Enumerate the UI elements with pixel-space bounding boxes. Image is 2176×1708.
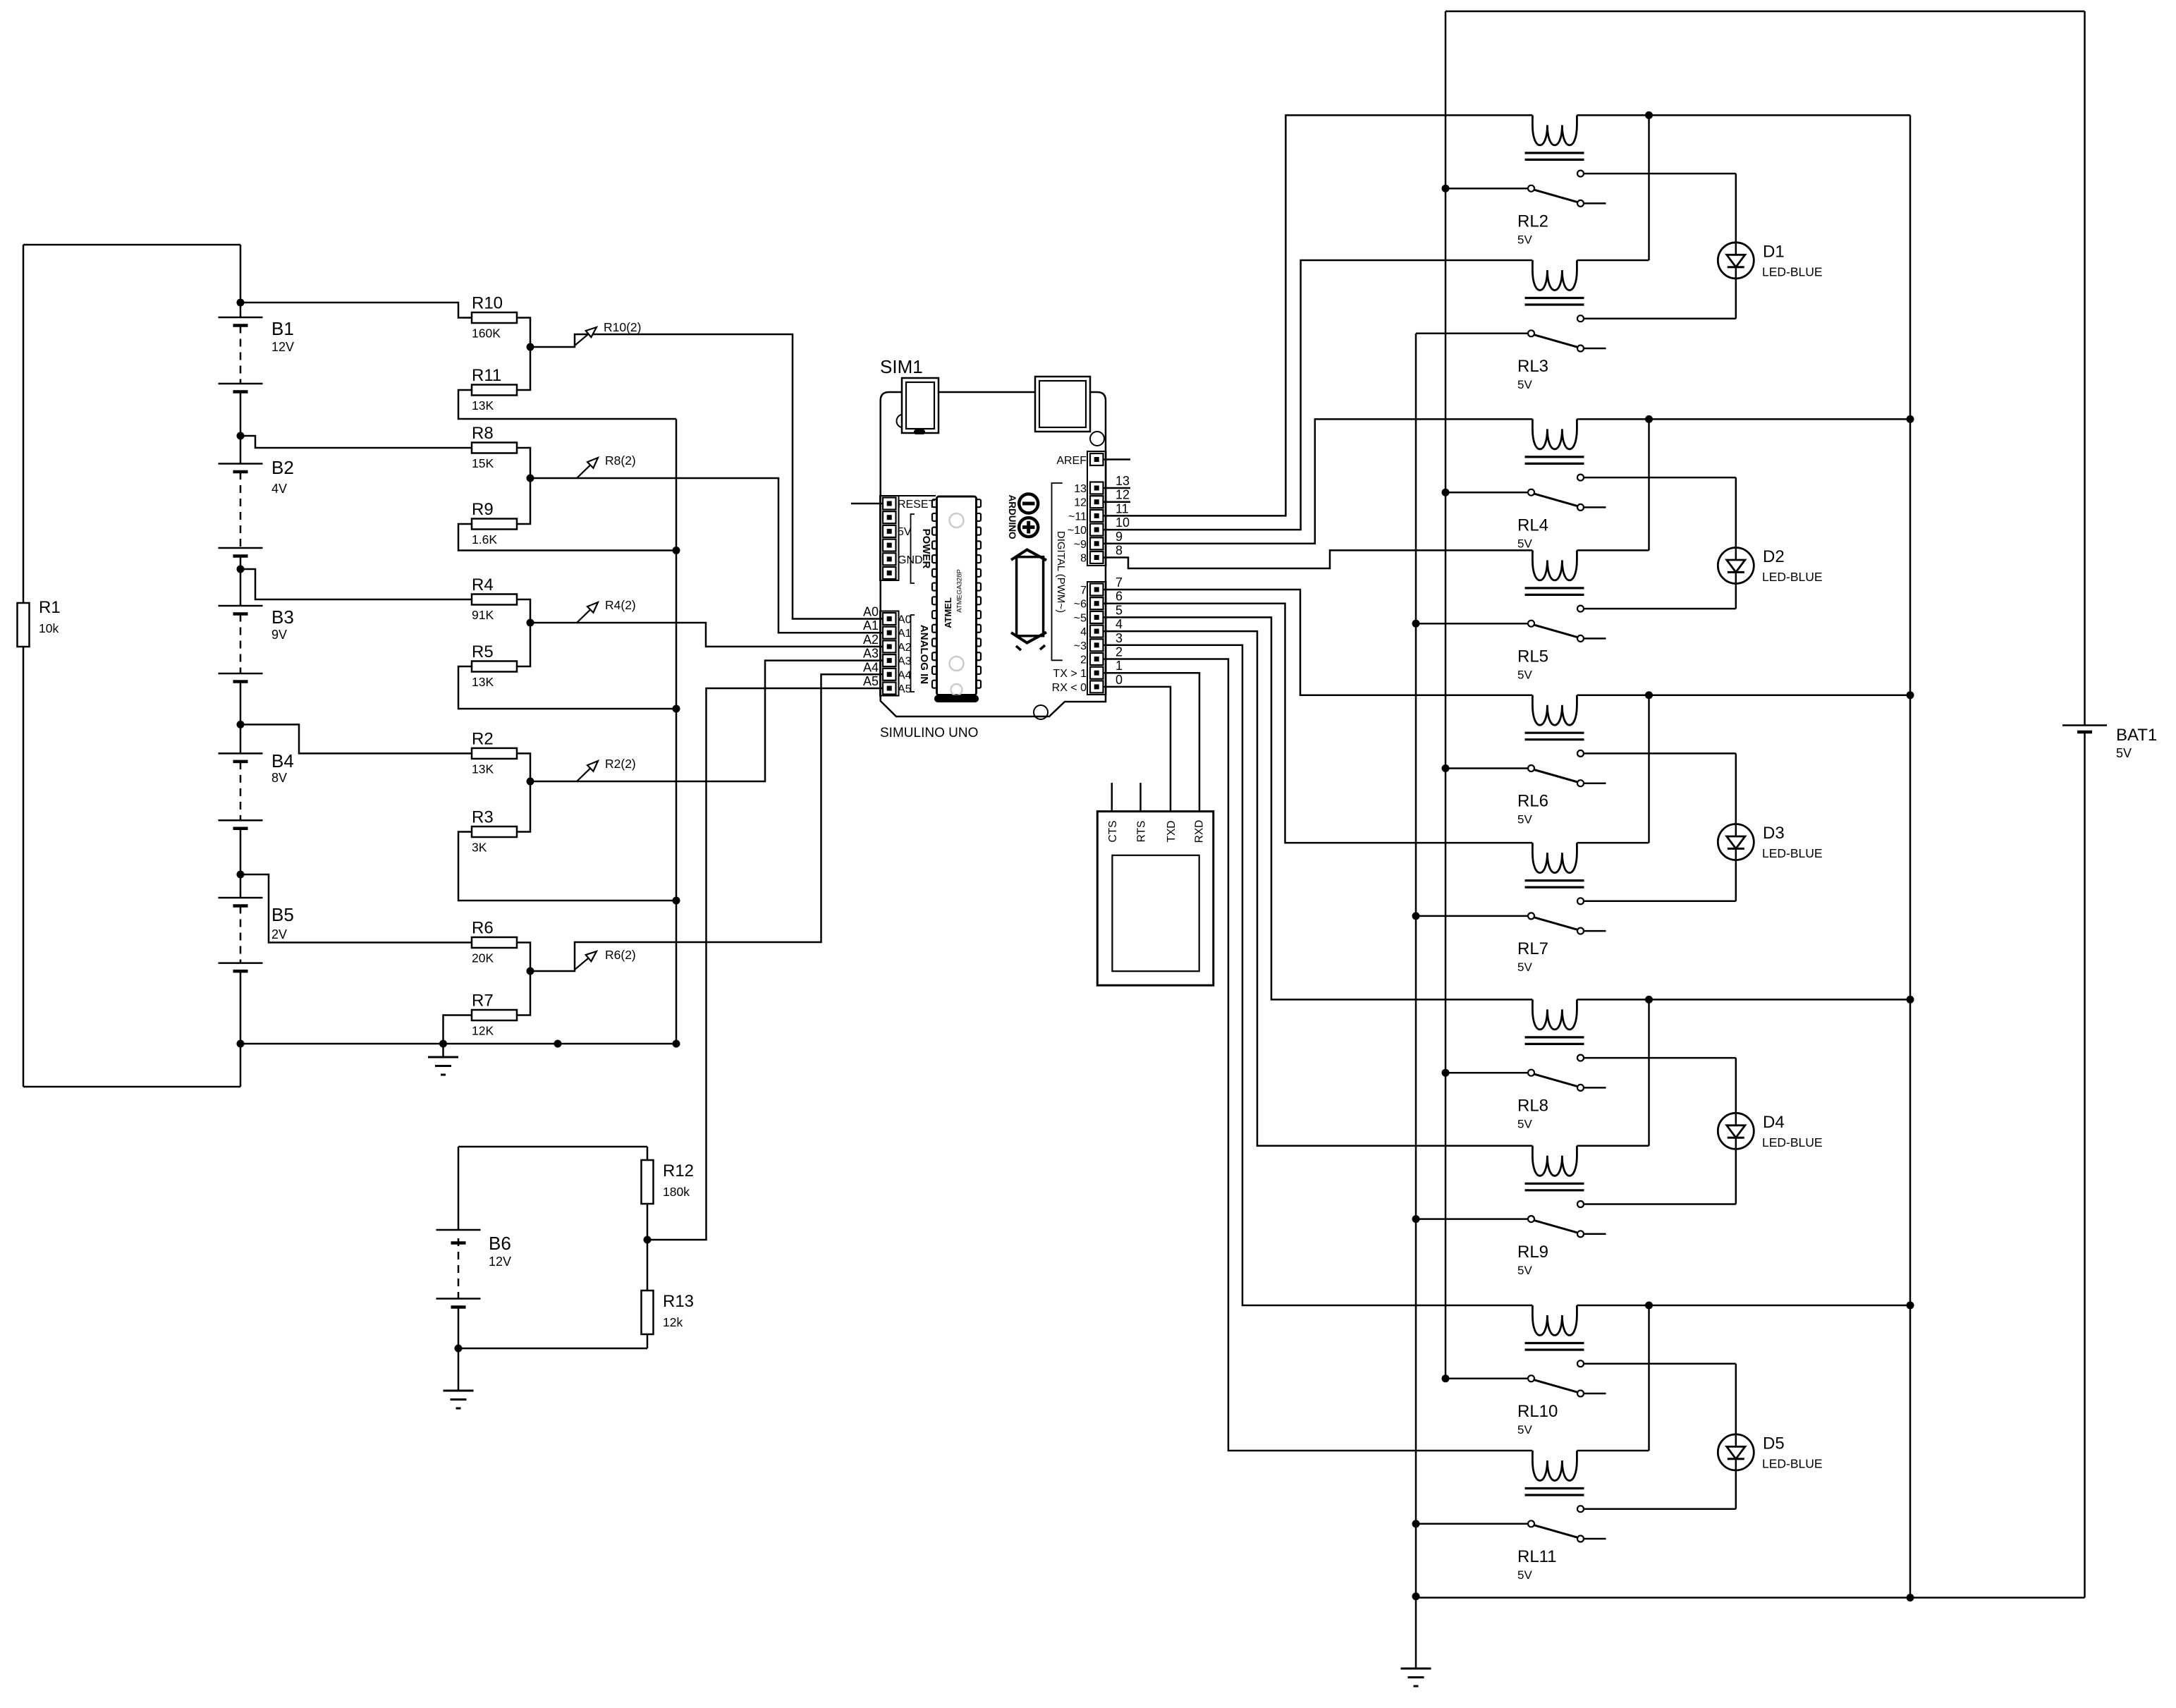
svg-text:D2: D2 (1763, 547, 1785, 566)
svg-text:R6: R6 (472, 919, 494, 938)
svg-text:11: 11 (1115, 501, 1129, 516)
svg-text:RXD: RXD (1194, 820, 1206, 843)
svg-text:A0: A0 (863, 605, 879, 619)
svg-text:RL2: RL2 (1517, 212, 1548, 231)
svg-text:DIGITAL (PWM~): DIGITAL (PWM~) (1055, 531, 1067, 613)
svg-text:A2: A2 (898, 642, 912, 654)
svg-text:BAT1: BAT1 (2116, 726, 2157, 745)
svg-text:R8: R8 (472, 424, 494, 443)
svg-text:R7: R7 (472, 992, 494, 1011)
svg-text:R5: R5 (472, 642, 494, 661)
svg-text:5V: 5V (2116, 746, 2132, 760)
svg-text:R12: R12 (663, 1161, 694, 1181)
svg-text:A1: A1 (863, 618, 879, 633)
svg-text:R10(2): R10(2) (604, 320, 642, 334)
svg-text:2V: 2V (271, 927, 287, 941)
svg-text:~5: ~5 (1074, 612, 1087, 624)
svg-text:A5: A5 (863, 674, 879, 688)
svg-text:8: 8 (1080, 553, 1087, 565)
svg-text:5V: 5V (1517, 1117, 1532, 1130)
svg-text:13K: 13K (472, 398, 494, 413)
svg-text:R8(2): R8(2) (605, 453, 636, 468)
svg-text:5V: 5V (1517, 378, 1532, 391)
svg-text:5V: 5V (1517, 537, 1532, 550)
svg-text:A3: A3 (863, 647, 879, 661)
svg-text:R4: R4 (472, 575, 494, 594)
svg-text:LED-BLUE: LED-BLUE (1762, 1456, 1823, 1470)
svg-text:RL4: RL4 (1517, 516, 1548, 535)
svg-text:LED-BLUE: LED-BLUE (1762, 1135, 1823, 1149)
svg-text:5V: 5V (1517, 960, 1532, 974)
svg-text:AREF: AREF (1056, 455, 1087, 467)
svg-text:7: 7 (1115, 575, 1123, 590)
svg-text:10k: 10k (39, 621, 59, 635)
svg-text:10: 10 (1115, 516, 1130, 530)
svg-text:A4: A4 (898, 669, 912, 681)
svg-text:RL10: RL10 (1517, 1402, 1558, 1421)
svg-text:~3: ~3 (1074, 640, 1087, 652)
svg-text:5V: 5V (898, 526, 912, 538)
svg-text:5V: 5V (1517, 1423, 1532, 1436)
svg-text:A2: A2 (863, 633, 879, 647)
svg-text:12: 12 (1115, 488, 1130, 502)
svg-text:~10: ~10 (1068, 525, 1087, 537)
svg-text:12k: 12k (663, 1315, 683, 1329)
svg-text:7: 7 (1080, 585, 1087, 597)
svg-text:13K: 13K (472, 675, 494, 689)
svg-text:LED-BLUE: LED-BLUE (1762, 264, 1823, 279)
svg-text:A4: A4 (863, 660, 879, 674)
svg-text:8V: 8V (271, 771, 287, 785)
svg-text:R2: R2 (472, 729, 494, 748)
svg-text:RTS: RTS (1136, 821, 1148, 843)
svg-text:12V: 12V (271, 340, 294, 354)
svg-text:5: 5 (1115, 603, 1123, 617)
svg-text:B2: B2 (271, 457, 294, 478)
svg-text:1: 1 (1115, 659, 1123, 673)
svg-text:B4: B4 (271, 750, 294, 771)
svg-text:13K: 13K (472, 762, 494, 776)
svg-text:13: 13 (1115, 474, 1130, 488)
svg-text:R10: R10 (472, 294, 503, 313)
svg-text:2: 2 (1080, 654, 1087, 666)
svg-text:20K: 20K (472, 951, 494, 965)
svg-text:0: 0 (1115, 673, 1123, 687)
svg-text:A0: A0 (898, 614, 912, 626)
svg-text:B1: B1 (271, 318, 294, 339)
svg-text:B5: B5 (271, 904, 294, 925)
svg-text:R9: R9 (472, 500, 494, 519)
svg-text:4V: 4V (271, 482, 287, 496)
svg-text:RL8: RL8 (1517, 1096, 1548, 1115)
svg-text:RL11: RL11 (1517, 1547, 1557, 1566)
svg-text:RL9: RL9 (1517, 1243, 1548, 1262)
svg-text:3K: 3K (472, 841, 487, 855)
svg-text:D4: D4 (1763, 1113, 1785, 1132)
svg-text:B3: B3 (271, 606, 294, 628)
svg-text:RL6: RL6 (1517, 792, 1548, 811)
svg-text:RL7: RL7 (1517, 939, 1548, 958)
svg-text:6: 6 (1115, 590, 1123, 604)
svg-text:2: 2 (1115, 645, 1123, 659)
svg-text:D1: D1 (1763, 242, 1785, 261)
svg-text:3: 3 (1115, 631, 1123, 645)
svg-text:~6: ~6 (1074, 599, 1087, 611)
svg-text:SIM1: SIM1 (880, 356, 923, 377)
svg-text:R13: R13 (663, 1292, 694, 1311)
svg-text:4: 4 (1080, 626, 1087, 638)
svg-text:R6(2): R6(2) (605, 948, 636, 962)
svg-text:CTS: CTS (1107, 821, 1119, 843)
svg-text:TX > 1: TX > 1 (1053, 668, 1087, 680)
svg-text:12K: 12K (472, 1024, 494, 1038)
svg-text:12V: 12V (489, 1255, 511, 1269)
svg-text:~11: ~11 (1068, 511, 1087, 523)
svg-text:ATMEL: ATMEL (943, 597, 953, 628)
svg-text:180k: 180k (663, 1185, 690, 1199)
svg-text:R11: R11 (472, 366, 501, 385)
svg-text:13: 13 (1074, 483, 1087, 495)
svg-text:~9: ~9 (1074, 539, 1087, 551)
svg-text:A3: A3 (898, 656, 912, 668)
svg-text:ATMEGA328P: ATMEGA328P (956, 569, 964, 613)
svg-text:RX < 0: RX < 0 (1052, 682, 1087, 694)
svg-text:R1: R1 (39, 598, 61, 617)
svg-text:8: 8 (1115, 544, 1123, 558)
svg-text:TXD: TXD (1166, 821, 1178, 843)
svg-text:RL5: RL5 (1517, 647, 1548, 666)
svg-text:SIMULINO UNO: SIMULINO UNO (880, 726, 978, 740)
svg-text:1.6K: 1.6K (472, 532, 497, 547)
svg-text:91K: 91K (472, 608, 494, 622)
svg-text:R4(2): R4(2) (605, 598, 636, 612)
svg-text:ARDUINO: ARDUINO (1007, 495, 1017, 539)
svg-text:LED-BLUE: LED-BLUE (1762, 570, 1823, 584)
svg-text:LED-BLUE: LED-BLUE (1762, 846, 1823, 860)
svg-text:ANALOG IN: ANALOG IN (918, 625, 930, 684)
svg-text:4: 4 (1115, 617, 1123, 631)
svg-text:R3: R3 (472, 808, 494, 827)
svg-text:5V: 5V (1517, 1264, 1532, 1277)
svg-text:R2(2): R2(2) (605, 757, 636, 771)
svg-text:5V: 5V (1517, 668, 1532, 681)
svg-text:A5: A5 (898, 683, 912, 695)
svg-text:9V: 9V (271, 628, 287, 642)
svg-text:B6: B6 (489, 1233, 511, 1254)
svg-text:RESET: RESET (898, 499, 936, 511)
svg-text:5V: 5V (1517, 233, 1532, 246)
svg-text:D5: D5 (1763, 1434, 1785, 1453)
svg-text:5V: 5V (1517, 813, 1532, 826)
svg-text:5V: 5V (1517, 1568, 1532, 1582)
svg-text:A1: A1 (898, 628, 912, 640)
svg-text:D3: D3 (1763, 824, 1785, 843)
svg-text:POWER: POWER (920, 529, 932, 569)
svg-text:12: 12 (1074, 497, 1087, 509)
svg-text:15K: 15K (472, 456, 494, 470)
svg-text:RL3: RL3 (1517, 357, 1548, 376)
svg-text:9: 9 (1115, 530, 1123, 544)
svg-text:160K: 160K (472, 327, 501, 341)
